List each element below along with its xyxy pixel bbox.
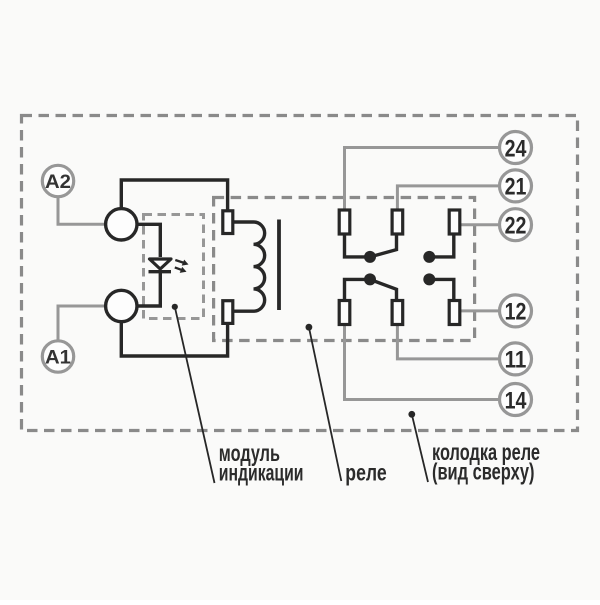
terminal A2 [42, 165, 73, 196]
node circle 1 [106, 209, 137, 240]
terminal 22 [500, 209, 532, 241]
svg-text:11: 11 [505, 347, 527, 374]
leader dot for relay label [306, 324, 313, 331]
terminal 14 [500, 384, 532, 416]
socket wire to terminal 24 [345, 148, 500, 211]
wire LED cathode to node 2 [137, 272, 160, 306]
junction dot bottom-right [423, 273, 435, 285]
contact pin top-right [449, 210, 460, 234]
contact pin bottom-right [449, 301, 460, 325]
wire A1 to node circle 2 [58, 306, 106, 340]
contact pin bottom-left [339, 301, 350, 325]
terminal 11 [500, 343, 532, 375]
terminal 12 [500, 295, 532, 327]
socket wire to terminal 12 [460, 309, 498, 312]
wire node 1 to LED anode [137, 224, 160, 257]
LED D1 cathode bar [149, 270, 172, 273]
contact arm wire top-left [345, 234, 371, 257]
contact pin top-left (NC 21 side) [339, 210, 350, 234]
leader line for relay label [309, 327, 341, 481]
svg-text:12: 12 [505, 299, 527, 326]
contact mover top-left [370, 234, 397, 257]
coil terminal pin bottom [223, 301, 233, 324]
svg-text:21: 21 [505, 174, 527, 201]
LED light arrow 2 [175, 267, 187, 273]
svg-text:A1: A1 [45, 347, 71, 368]
svg-text:A2: A2 [45, 172, 71, 193]
node circle 2 [106, 290, 137, 321]
contact arm wire top-right [429, 234, 454, 257]
svg-text:24: 24 [505, 135, 527, 162]
contact pin bottom-middle [392, 301, 403, 325]
outer dashed enclosure box [22, 116, 578, 431]
junction dot top-right [423, 251, 435, 263]
relay coil winding [233, 222, 265, 311]
contact arm wire bottom-left [345, 279, 371, 300]
leader dot for socket label [408, 411, 415, 418]
terminal 24 [500, 132, 532, 164]
socket wire to terminal 14 [345, 325, 499, 400]
wire top of indication module loop [121, 180, 227, 211]
socket wire to terminal 11 [397, 325, 498, 359]
junction dot bottom-left [364, 273, 376, 285]
leader dot for indication module label [172, 304, 178, 310]
svg-text:реле: реле [345, 460, 386, 486]
wire bottom of indication module loop [121, 322, 227, 357]
relay dashed box [214, 198, 475, 341]
svg-text:14: 14 [505, 387, 527, 414]
LED D1 triangle [150, 259, 172, 269]
svg-text:индикации: индикации [219, 460, 304, 486]
terminal A1 [42, 341, 73, 372]
indication module dashed box [144, 215, 204, 319]
socket wire to terminal 21 [397, 186, 498, 210]
svg-text:22: 22 [505, 213, 527, 240]
contact arm wire bottom-right [429, 279, 454, 300]
wire A2 to node circle 1 [58, 198, 106, 225]
leader line for indication module label [175, 307, 215, 483]
contact mover bottom-left [370, 279, 397, 300]
coil terminal pin top [223, 211, 233, 234]
contact pin top-middle [392, 210, 403, 234]
LED light arrow 1 [175, 260, 188, 266]
leader line for socket label [412, 414, 428, 482]
socket wire to terminal 22 [460, 223, 498, 226]
terminal 21 [500, 170, 532, 202]
junction dot top-left [364, 251, 376, 263]
svg-text:(вид сверху): (вид сверху) [432, 459, 535, 485]
relay coil core bar [277, 220, 281, 311]
